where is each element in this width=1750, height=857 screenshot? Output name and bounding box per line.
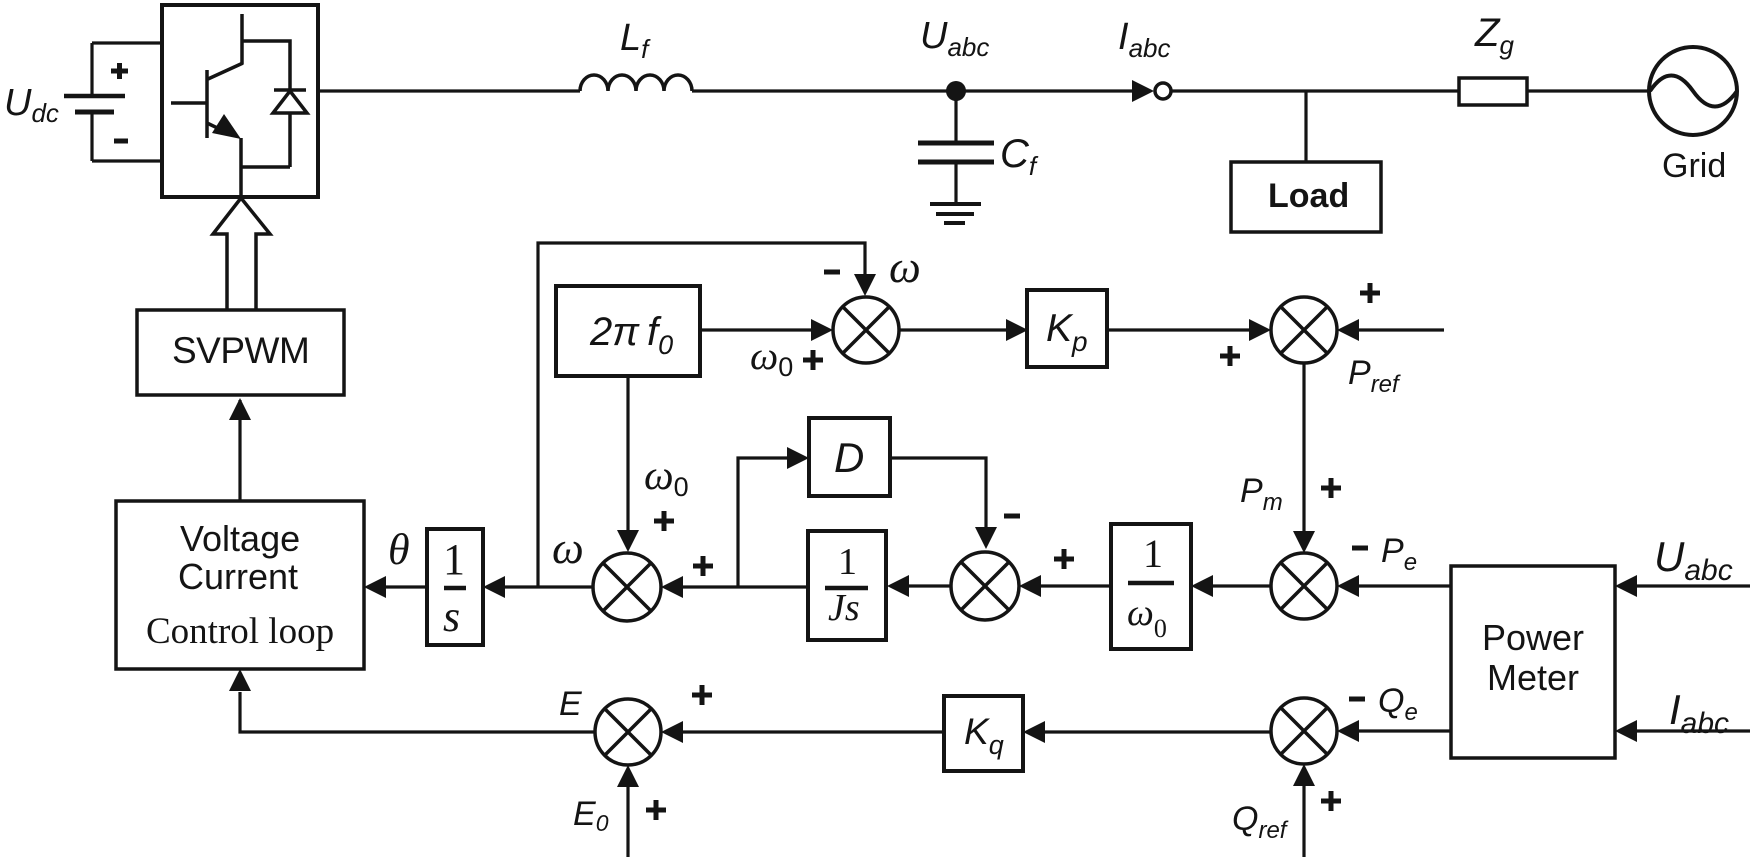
diode freewheel — [241, 41, 307, 196]
svg-text:θ: θ — [388, 525, 410, 574]
label plus J1 left — [803, 350, 823, 370]
wire J4 to 1/Js — [908, 584, 951, 587]
wire Qref — [1302, 785, 1305, 857]
svg-text:D: D — [834, 434, 864, 481]
box Kq — [944, 696, 1023, 771]
battery Udc — [64, 43, 125, 161]
label minus Pe — [1352, 546, 1368, 551]
wire dc top — [92, 41, 162, 44]
wire Pref input — [1358, 328, 1444, 331]
label plus J4 — [1054, 549, 1074, 569]
wire E0 — [626, 786, 629, 857]
VCC box — [116, 501, 364, 669]
wire load tap — [1304, 91, 1307, 162]
wire 2pif0 to J1 — [700, 328, 812, 331]
wire Zg to grid — [1527, 89, 1650, 92]
SVPWM box — [137, 310, 344, 395]
box Kp — [1027, 290, 1107, 367]
box 1/s — [427, 529, 483, 645]
wire inverter output — [318, 89, 580, 92]
wire J1 to Kp — [899, 328, 1007, 331]
box 2pi f0 — [556, 286, 700, 376]
label plus E0 — [646, 800, 666, 820]
svg-text:1: 1 — [443, 535, 465, 584]
svg-text:ω: ω — [889, 242, 921, 292]
wire J2 down to J5 — [1302, 363, 1305, 533]
label plus J6 right — [692, 685, 712, 705]
svg-text:1: 1 — [1143, 531, 1163, 576]
inverter box — [162, 5, 318, 197]
wire 1/Js to J3 — [682, 585, 808, 588]
sensor circle Iabc — [1155, 83, 1171, 99]
label plus Pm — [1321, 478, 1341, 498]
wire 1/s to VCC — [385, 585, 427, 588]
svg-text:Voltage: Voltage — [180, 518, 300, 559]
label plus Qref — [1321, 791, 1341, 811]
hollow arrow gate drive — [213, 198, 270, 311]
wire sensor to Zg — [1171, 89, 1459, 92]
svg-text:Js: Js — [828, 587, 860, 629]
node Uabc dot — [946, 81, 966, 101]
wire J7 to Kq — [1044, 730, 1271, 733]
wire J6 to VCC — [240, 692, 595, 732]
inductor Lf — [580, 75, 692, 91]
ground — [930, 204, 981, 223]
wire Lf to sensor — [692, 89, 1132, 92]
svg-text:Power: Power — [1482, 617, 1584, 658]
summing junction J1 — [833, 297, 899, 363]
box 1/Js — [808, 531, 886, 640]
wire VCC to SVPWM — [238, 400, 241, 501]
impedance Zg — [1459, 78, 1527, 105]
grid source — [1649, 47, 1737, 135]
label plus Pref — [1360, 283, 1380, 303]
wire Iabc input — [1636, 729, 1750, 732]
wire omega feedback — [538, 243, 865, 587]
box D — [809, 418, 890, 496]
wire Kp to J2 — [1107, 328, 1250, 331]
svg-text:Grid: Grid — [1662, 147, 1726, 185]
summing junction J6 — [595, 699, 661, 765]
label + — [111, 63, 128, 79]
wire D to J4 — [890, 458, 986, 528]
svg-text:Control loop: Control loop — [146, 611, 334, 652]
svg-text:Meter: Meter — [1487, 657, 1579, 698]
wire J5 to 1/w0 — [1212, 584, 1271, 587]
label plus omega0 — [654, 511, 674, 531]
label minus D — [1004, 514, 1020, 519]
wire Kq to J6 — [682, 730, 944, 733]
svg-text:SVPWM: SVPWM — [172, 330, 309, 371]
summing junction J5 — [1271, 553, 1337, 619]
box 1/w0 — [1111, 524, 1191, 649]
label plus J2 left — [1220, 346, 1240, 366]
load box — [1231, 162, 1381, 232]
label plus J3 right — [693, 556, 713, 576]
label - — [114, 139, 128, 144]
wire PM to J5 — [1358, 584, 1451, 587]
summing junction J2 — [1271, 297, 1337, 363]
capacitor Cf — [918, 91, 994, 204]
svg-text:ω: ω — [552, 523, 584, 573]
wire 1/w0 to J4 — [1040, 584, 1111, 587]
label minus Qe — [1349, 697, 1365, 702]
wire J3 to 1/s — [504, 585, 593, 588]
wire Uabc input — [1636, 584, 1750, 587]
summing junction J4 — [951, 552, 1019, 620]
label minus J1 — [824, 270, 840, 275]
svg-text:s: s — [443, 592, 460, 641]
D tap branch — [738, 458, 788, 587]
summing junction J7 — [1271, 698, 1337, 764]
transistor IGBT — [171, 14, 243, 167]
summing junction J3 — [593, 553, 661, 621]
svg-text:Load: Load — [1268, 177, 1349, 215]
svg-text:E: E — [559, 685, 582, 723]
wire f0 down to J3 — [626, 376, 629, 531]
wire PM to J7 — [1358, 729, 1451, 732]
svg-text:Current: Current — [178, 556, 298, 597]
arrow Iabc flow — [1132, 80, 1154, 102]
wire dc bottom — [92, 159, 162, 162]
svg-text:1: 1 — [838, 541, 857, 583]
power meter box — [1451, 566, 1615, 758]
